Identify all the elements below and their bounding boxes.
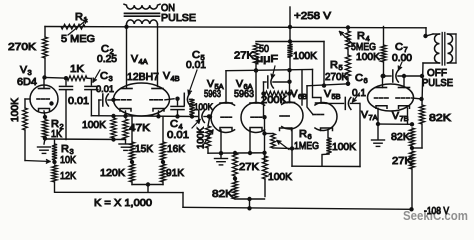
svg-text:V: V: [163, 70, 170, 82]
svg-text:C: C: [395, 41, 403, 53]
svg-text:270K: 270K: [8, 41, 36, 53]
svg-text:R: R: [75, 11, 83, 23]
svg-text:0.01: 0.01: [96, 84, 114, 95]
svg-text:V: V: [392, 110, 399, 122]
svg-text:91K: 91K: [166, 167, 184, 179]
svg-text:4A: 4A: [139, 57, 148, 66]
svg-text:27K: 27K: [234, 50, 254, 62]
svg-text:+258 V: +258 V: [294, 10, 331, 22]
svg-text:7A: 7A: [369, 113, 378, 122]
svg-text:12BH7: 12BH7: [127, 71, 159, 83]
svg-text:V: V: [324, 88, 331, 100]
svg-text:5963: 5963: [234, 88, 254, 100]
svg-text:100K: 100K: [293, 50, 317, 62]
svg-text:V: V: [361, 109, 368, 121]
svg-text:μμF: μμF: [256, 53, 278, 65]
svg-text:3: 3: [109, 74, 113, 83]
svg-text:100K: 100K: [268, 171, 292, 183]
svg-text:82K: 82K: [212, 188, 233, 200]
svg-text:120K: 120K: [100, 167, 125, 179]
svg-text:16K: 16K: [167, 143, 185, 155]
svg-text:-108 V: -108 V: [424, 205, 449, 217]
svg-text:V: V: [20, 64, 27, 76]
svg-text:5 MEG: 5 MEG: [61, 33, 95, 45]
svg-text:R: R: [299, 128, 307, 140]
svg-text:100K: 100K: [82, 119, 106, 131]
svg-text:1: 1: [84, 15, 88, 24]
svg-text:27K: 27K: [239, 161, 259, 173]
svg-text:82K: 82K: [429, 112, 451, 124]
svg-text:C: C: [100, 70, 108, 82]
svg-text:100K: 100K: [9, 98, 21, 122]
svg-text:10K: 10K: [60, 154, 76, 166]
svg-text:0.01: 0.01: [68, 95, 89, 107]
svg-text:V: V: [131, 53, 138, 65]
svg-text:4B: 4B: [171, 74, 180, 83]
svg-text:PULSE: PULSE: [422, 77, 453, 89]
svg-text:100K: 100K: [332, 141, 356, 153]
svg-text:1MEG: 1MEG: [294, 140, 319, 152]
svg-text:0.25: 0.25: [97, 53, 117, 65]
svg-text:12K: 12K: [60, 170, 76, 182]
svg-text:100K: 100K: [196, 126, 207, 149]
svg-text:6D4: 6D4: [17, 76, 37, 88]
svg-text:82K: 82K: [391, 131, 410, 143]
svg-text:15K: 15K: [135, 143, 153, 155]
svg-text:R: R: [330, 59, 338, 71]
svg-text:270K: 270K: [325, 71, 348, 83]
svg-text:K = X 1,000: K = X 1,000: [94, 197, 152, 209]
svg-text:1K: 1K: [51, 128, 62, 140]
svg-text:PULSE: PULSE: [161, 12, 196, 24]
svg-text:100K: 100K: [356, 51, 380, 63]
svg-text:5963: 5963: [204, 88, 221, 100]
svg-text:27K: 27K: [392, 155, 412, 167]
svg-text:1K: 1K: [70, 63, 84, 75]
svg-text:5B: 5B: [332, 92, 341, 101]
svg-text:0.01: 0.01: [186, 59, 206, 71]
svg-text:0.01: 0.01: [167, 129, 189, 141]
svg-text:6: 6: [364, 76, 368, 85]
svg-text:C: C: [355, 72, 363, 84]
svg-text:6B: 6B: [298, 92, 307, 101]
svg-text:V: V: [291, 88, 298, 100]
